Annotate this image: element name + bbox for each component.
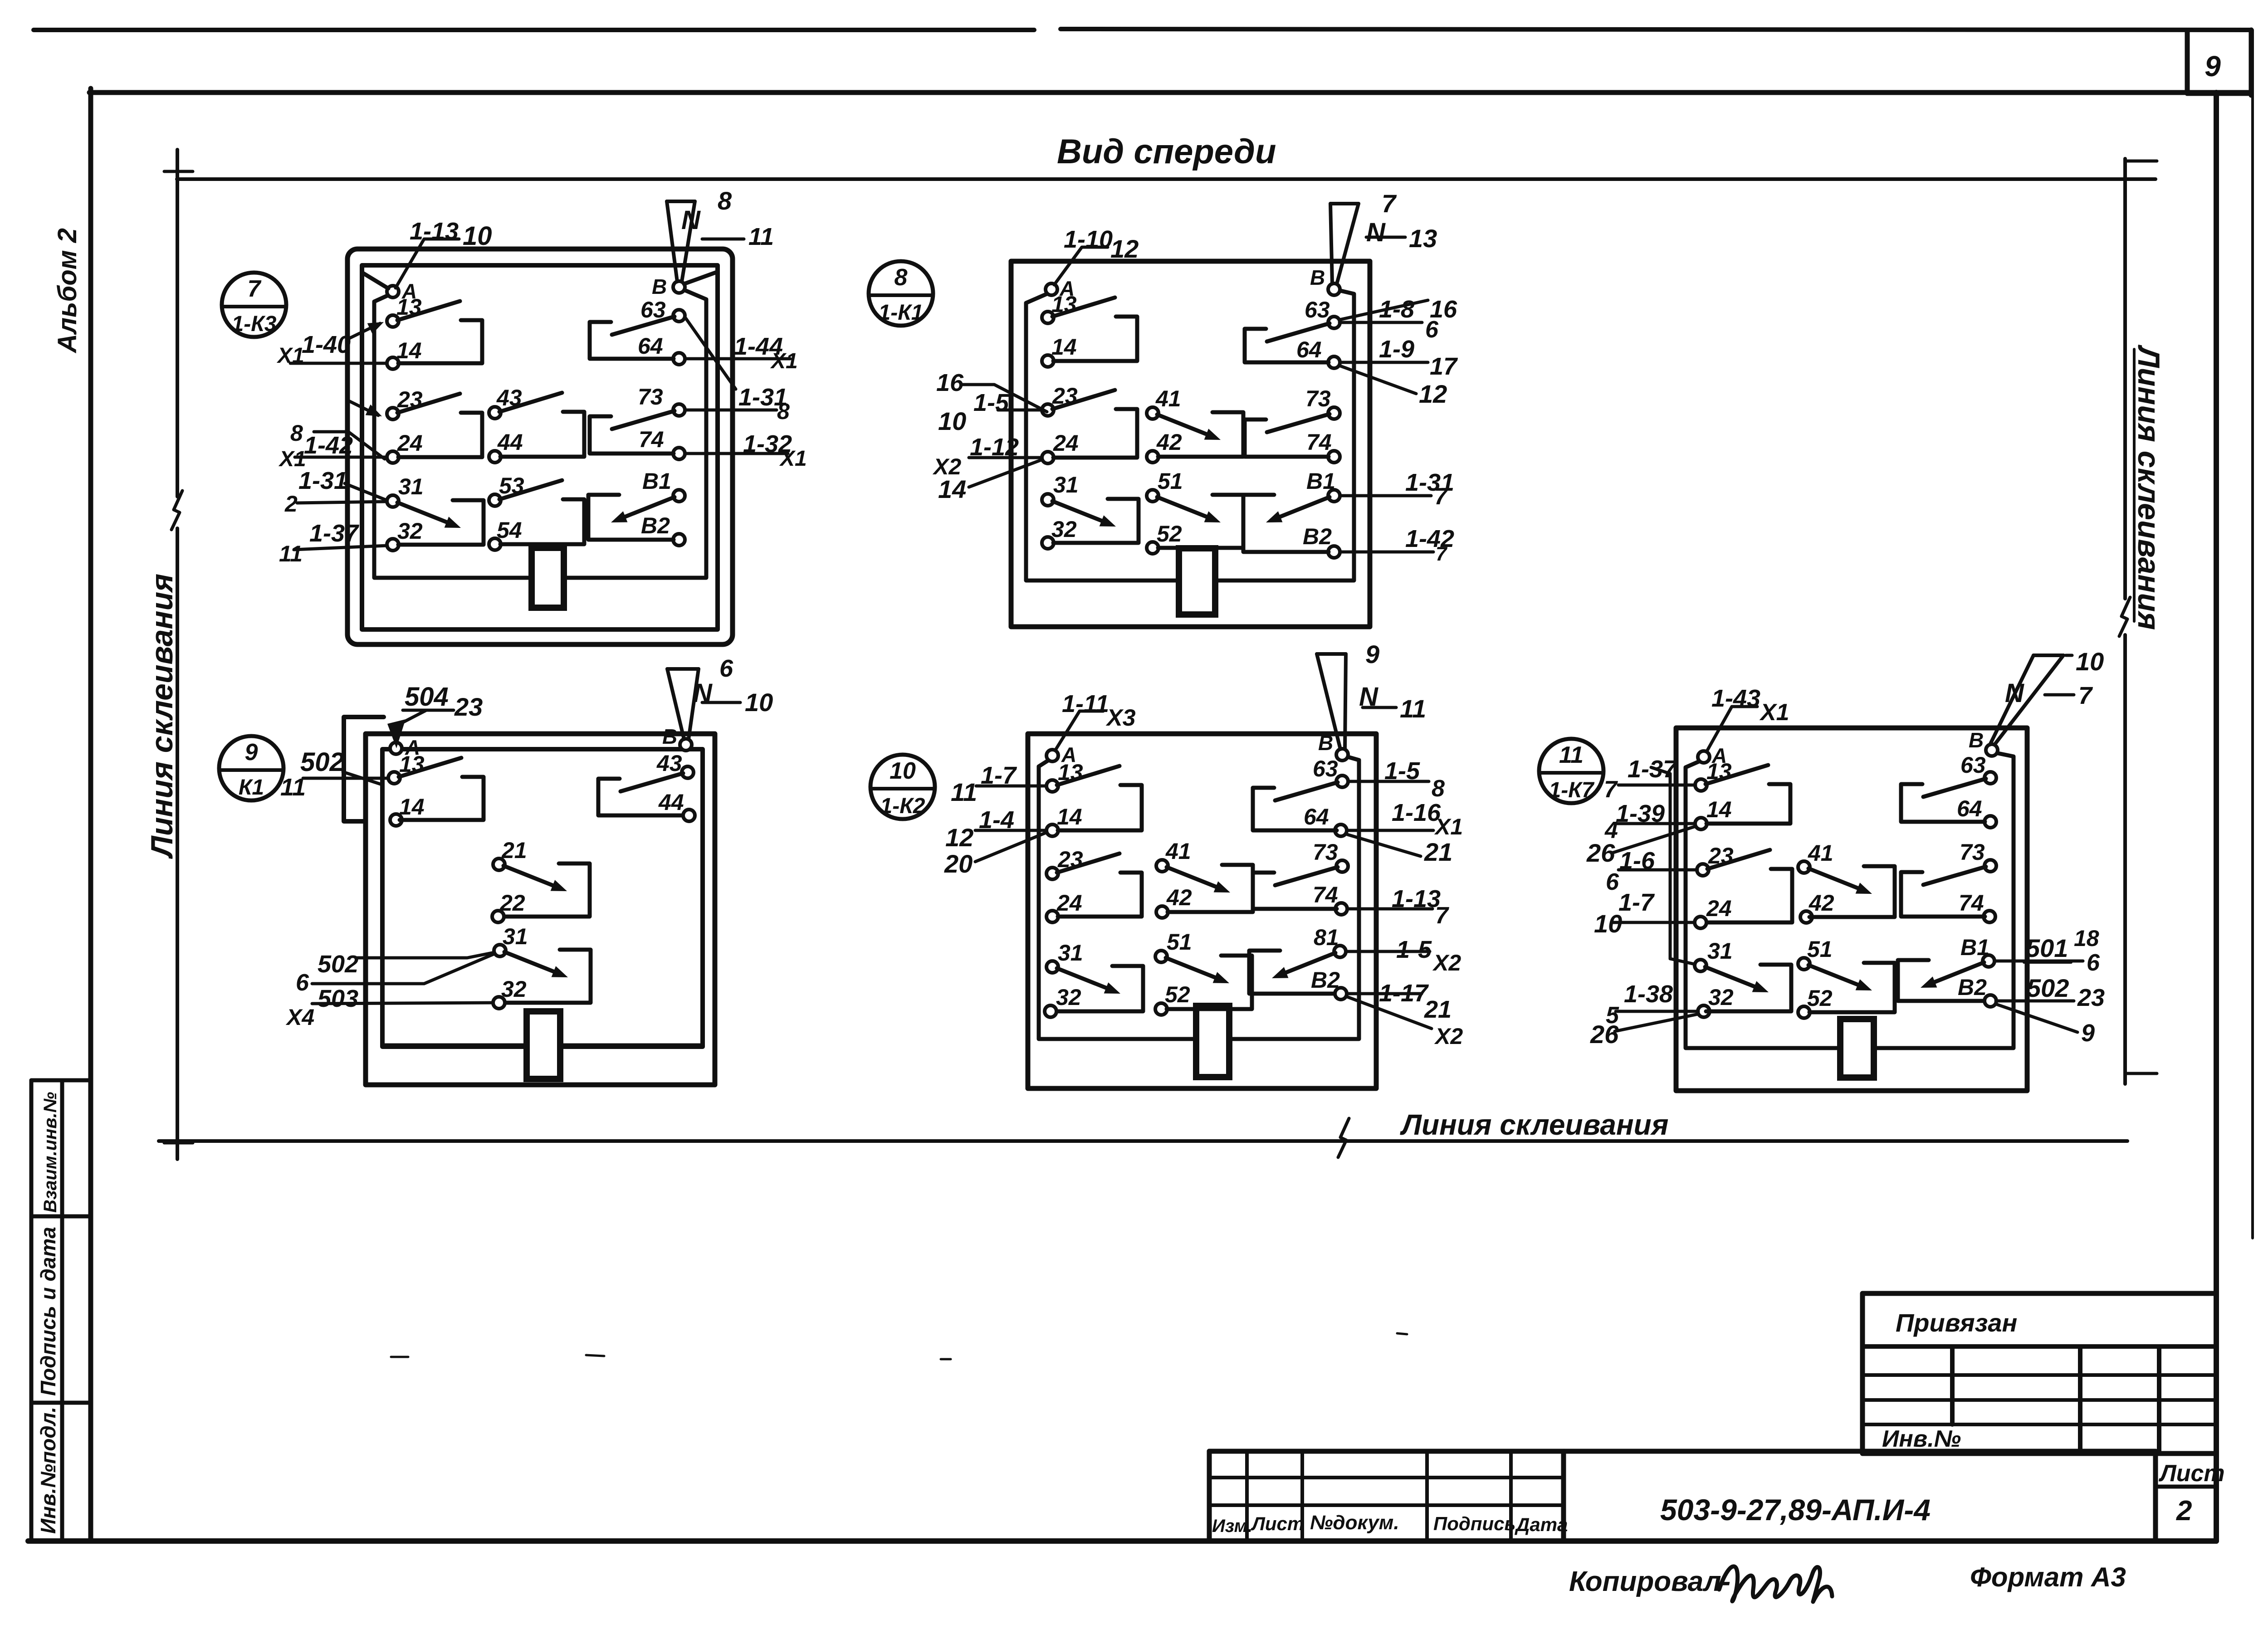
svg-text:B2: B2 <box>1311 967 1340 993</box>
pin 52 (1-K2) <box>1155 982 1190 1015</box>
svg-text:7: 7 <box>2078 682 2093 709</box>
bottom glue-line break mark <box>1338 1118 1349 1157</box>
svg-text:B: B <box>1318 731 1333 755</box>
svg-text:Формат А3: Формат А3 <box>1970 1562 2126 1592</box>
glue area right line <box>2125 159 2157 1084</box>
svg-text:1-38: 1-38 <box>1624 980 1673 1008</box>
leader 1-11/X3 (1-K2) <box>1055 690 1136 751</box>
svg-text:73: 73 <box>1305 386 1331 411</box>
pin 64 (1-K2) <box>1304 804 1347 836</box>
svg-text:Лист: Лист <box>1251 1513 1304 1534</box>
svg-text:64: 64 <box>1304 804 1329 829</box>
svg-text:74: 74 <box>1313 882 1338 907</box>
leader 10 (9/K1) <box>702 688 773 717</box>
contact 31-32 (1-K1) <box>1052 499 1139 543</box>
pin 42 (1-K1) <box>1147 429 1182 463</box>
svg-text:X1: X1 <box>276 344 304 368</box>
relay unit 10/1-K2 outline <box>1028 734 1376 1088</box>
pin 14 (1-K2) <box>1046 804 1082 836</box>
pin 32 (1-K1) <box>1042 517 1077 549</box>
leader 8/1-42/X1 to 24 (1-K3) <box>278 420 386 471</box>
svg-text:51: 51 <box>1158 468 1183 494</box>
svg-text:12: 12 <box>1110 234 1139 263</box>
svg-text:1-17: 1-17 <box>1379 980 1429 1007</box>
svg-text:Изм.: Изм. <box>1212 1516 1252 1536</box>
svg-text:B: B <box>652 275 667 298</box>
svg-text:1-7: 1-7 <box>981 762 1017 789</box>
svg-text:1-К7: 1-К7 <box>1549 778 1595 802</box>
pin 13 (9/K1) <box>388 751 425 784</box>
svg-text:12: 12 <box>945 823 973 852</box>
contact 23-24 (1-K2) <box>1057 854 1142 917</box>
svg-text:Копировал-: Копировал- <box>1569 1566 1730 1597</box>
svg-text:X4: X4 <box>285 1005 314 1030</box>
coil K of 1-K7 <box>1840 1019 1874 1078</box>
pin 64 (1-K7) <box>1957 796 1996 828</box>
N flag above B (1-K1) <box>1330 204 1359 284</box>
pin 51 (1-K2) <box>1155 929 1192 962</box>
svg-text:74: 74 <box>1959 890 1984 916</box>
sheet right edge line <box>2251 30 2254 1238</box>
pin 41 (1-K1) <box>1147 386 1181 419</box>
sheet number box <box>2187 30 2251 95</box>
svg-text:11: 11 <box>748 223 774 250</box>
contact 73-74 (1-K3) <box>590 411 675 454</box>
wire bus left (1-K7) <box>1686 761 1840 1048</box>
pin B (1-K1) <box>1310 266 1340 295</box>
pin A (1-K3) <box>387 279 417 303</box>
contact 63-64 (1-K1) <box>1245 323 1330 362</box>
svg-text:B: B <box>1969 728 1984 752</box>
contact 81-B2 (1-K2) <box>1249 951 1335 994</box>
revision table <box>1209 1451 1564 1541</box>
svg-text:43: 43 <box>656 751 682 776</box>
leader 1-31/8 from 73 (1-K3) <box>686 318 790 424</box>
contact 41-42 (1-K2) <box>1167 865 1253 912</box>
svg-text:64: 64 <box>1296 337 1322 362</box>
leader X1/1-40 to 14 (1-K3) <box>276 331 387 368</box>
svg-text:B2: B2 <box>1303 524 1332 549</box>
svg-text:21: 21 <box>501 838 527 863</box>
contact 23-24 (1-K1) <box>1052 390 1137 458</box>
pin 24 (1-K1) <box>1042 430 1079 463</box>
svg-text:Инв.№подл.: Инв.№подл. <box>36 1407 60 1534</box>
pin B2 (1-K1) <box>1303 524 1340 558</box>
svg-text:Инв.№: Инв.№ <box>1882 1426 1961 1452</box>
svg-text:503: 503 <box>318 985 358 1012</box>
pin 64 (1-K1) <box>1296 337 1340 368</box>
contact 13-14 (1-K2) <box>1057 766 1142 830</box>
position circle 11/1-K7 <box>1539 739 1603 803</box>
svg-text:X2: X2 <box>1434 1024 1463 1049</box>
svg-text:1-39: 1-39 <box>1616 800 1665 827</box>
pin 13 (1-K7) <box>1695 759 1732 791</box>
svg-text:B2: B2 <box>641 513 670 538</box>
pin A (1-K7) <box>1698 744 1727 767</box>
stamp box Privyazan <box>1862 1293 2216 1454</box>
pin 81 (1-K2) <box>1314 925 1346 957</box>
svg-text:1-31: 1-31 <box>298 467 347 494</box>
pin 32 (1-K7) <box>1698 985 1734 1017</box>
svg-text:8: 8 <box>718 186 732 215</box>
contact 23-24 (1-K7) <box>1707 850 1792 922</box>
leader 503/X4 to 32 (9/K1) <box>285 985 493 1030</box>
wire 1-31 into pin 13 (1-K3) <box>349 322 384 338</box>
svg-text:504: 504 <box>405 682 449 712</box>
svg-text:1-40: 1-40 <box>302 331 351 358</box>
svg-text:X1: X1 <box>770 349 798 373</box>
svg-text:6: 6 <box>1606 869 1619 895</box>
svg-text:44: 44 <box>658 790 684 815</box>
pin 24 (1-K7) <box>1695 896 1732 928</box>
left margin column <box>31 1080 91 1541</box>
pin 53 (1-K3) <box>489 473 524 506</box>
leader 1-5/10 to 23 (1-K1) <box>938 389 1041 435</box>
contact B1-B2 (1-K1) <box>1243 495 1330 552</box>
coil K of 1-K2 <box>1196 1006 1229 1077</box>
svg-text:1-8: 1-8 <box>1379 296 1414 323</box>
svg-text:24: 24 <box>1706 896 1732 921</box>
relay unit 8/1-K1 outline <box>1011 261 1370 627</box>
svg-text:N: N <box>2005 678 2024 708</box>
svg-text:32: 32 <box>1051 517 1077 542</box>
pin 63 (1-K7) <box>1960 752 1996 784</box>
leader 1-12/X2 to 24 (1-K1) <box>932 434 1041 479</box>
leader X2 from B2 (1-K2) <box>1347 997 1463 1049</box>
drawing frame left line <box>88 88 93 1541</box>
svg-text:Линия склеивания: Линия склеивания <box>2131 344 2166 630</box>
contact 23-24 (1-K3) <box>397 394 482 457</box>
label 10 at flag (1-K7) <box>2066 647 2104 676</box>
pin 51 (1-K7) <box>1798 937 1833 970</box>
leader 1-4/12 to 14 (1-K2) <box>945 806 1046 852</box>
position circle 7/1-K3 <box>222 273 286 337</box>
svg-text:11: 11 <box>1559 742 1584 768</box>
svg-text:Взаим.инв.№: Взаим.инв.№ <box>40 1092 60 1213</box>
pin B (1-K7) <box>1969 728 1998 756</box>
svg-text:1-К3: 1-К3 <box>232 312 277 336</box>
svg-text:18: 18 <box>2074 926 2099 951</box>
wire A to bus (1-K3) <box>363 273 388 288</box>
contact 21-22 (9/K1) <box>503 863 590 917</box>
pin 41 (1-K7) <box>1798 840 1833 873</box>
svg-text:Подпись: Подпись <box>1433 1513 1515 1534</box>
svg-text:41: 41 <box>1165 839 1191 864</box>
svg-text:1-10: 1-10 <box>1064 226 1113 253</box>
pin 23 (1-K3) <box>387 387 423 419</box>
svg-text:502: 502 <box>300 747 344 777</box>
svg-text:Вид спереди: Вид спереди <box>1057 132 1276 171</box>
svg-text:1-37: 1-37 <box>309 520 360 547</box>
wire bus right (1-K1) <box>1215 290 1354 580</box>
svg-text:1-4: 1-4 <box>979 806 1014 834</box>
svg-text:10: 10 <box>745 688 773 717</box>
pin 23 (1-K7) <box>1697 843 1734 876</box>
wire 1-37 drop to 31 (1-K7) <box>1651 767 1695 964</box>
position circle 9/K1 <box>219 736 283 800</box>
svg-text:Привязан: Привязан <box>1896 1308 2017 1337</box>
svg-text:31: 31 <box>503 924 528 949</box>
drawing frame top line <box>89 90 2251 95</box>
leader 1-31/7 from B1 (1-K1) <box>1340 469 1454 510</box>
svg-text:501: 501 <box>2026 934 2068 962</box>
svg-text:7: 7 <box>1434 483 1448 510</box>
svg-text:6: 6 <box>296 970 309 996</box>
wire 502 into pin 23 (1-K3) <box>347 400 382 416</box>
leader 1-9/17 from 64 (1-K1) <box>1342 336 1458 380</box>
N flag above B (1-K7) <box>1990 655 2063 745</box>
svg-text:31: 31 <box>1058 940 1083 966</box>
leader 11 (1-K2) <box>1363 694 1426 723</box>
pin 64 (1-K3) <box>638 333 685 365</box>
leader 26 to 32 (1-K7) <box>1590 1014 1698 1049</box>
svg-text:32: 32 <box>501 976 527 1002</box>
pin B1 (1-K1) <box>1306 468 1340 502</box>
leader 1-17/21 from B2 (1-K2) <box>1347 980 1452 1023</box>
svg-text:14: 14 <box>1706 797 1732 822</box>
svg-text:52: 52 <box>1157 521 1182 546</box>
contact 13-14 (1-K1) <box>1052 298 1137 361</box>
svg-text:№докум.: №докум. <box>1310 1512 1399 1534</box>
leader 502/11 to 13 (9/K1) <box>280 747 388 801</box>
svg-text:51: 51 <box>1167 929 1192 955</box>
svg-text:42: 42 <box>1166 885 1192 910</box>
contact 63-64 (1-K2) <box>1253 782 1338 830</box>
leader 1-10/12 (1-K1) <box>1054 226 1139 285</box>
glue area top line <box>177 177 2156 181</box>
svg-text:1-43: 1-43 <box>1711 685 1760 712</box>
leader 9 from B2 (1-K7) <box>1996 1004 2095 1047</box>
contact 31-32 (1-K2) <box>1057 966 1143 1011</box>
svg-text:6: 6 <box>2087 950 2100 976</box>
leader 1-7/11 to 13 (1-K2) <box>951 762 1046 806</box>
svg-text:21: 21 <box>1424 838 1452 866</box>
leader 6 to 31 (9/K1) <box>296 954 494 996</box>
pin 74 (1-K1) <box>1306 429 1340 463</box>
leader 1-38/5 to 32 (1-K7) <box>1606 980 1698 1029</box>
leader 1-5/X2 from 81 (1-K2) <box>1346 936 1461 976</box>
relay unit 9/K1 side tab <box>344 717 384 821</box>
pin 32 (1-K3) <box>387 518 423 551</box>
svg-text:24: 24 <box>1056 890 1082 916</box>
svg-text:Линия склеивания: Линия склеивания <box>1400 1108 1668 1141</box>
contact 13-14 (1-K3) <box>397 301 482 363</box>
left glue-line break mark <box>171 491 182 530</box>
leader 502/23 from B2 (1-K7) <box>1996 974 2105 1011</box>
svg-text:54: 54 <box>497 517 522 543</box>
svg-text:22: 22 <box>499 890 525 916</box>
N flag above B (9/K1) <box>667 669 699 739</box>
svg-text:1-К2: 1-К2 <box>880 794 925 818</box>
leader 1-37/7 to 13 (1-K7) <box>1604 756 1696 803</box>
svg-text:1-К1: 1-К1 <box>879 301 924 325</box>
contact 63-64 (1-K7) <box>1901 779 1986 822</box>
svg-text:64: 64 <box>638 333 663 359</box>
leader 16 to 23 (1-K1) <box>936 369 1047 412</box>
svg-text:20: 20 <box>944 849 973 878</box>
stray ink specks <box>391 1333 1407 1359</box>
svg-text:31: 31 <box>1707 938 1733 964</box>
wire B to bus (1-K3) <box>684 272 717 284</box>
svg-text:1-11: 1-11 <box>1062 690 1109 717</box>
pin 51 (1-K1) <box>1147 468 1183 502</box>
svg-text:1-16: 1-16 <box>1392 799 1441 826</box>
svg-text:8: 8 <box>777 399 790 424</box>
svg-text:23: 23 <box>2077 984 2105 1011</box>
svg-text:X2: X2 <box>1432 950 1461 976</box>
contact 41-42 (1-K7) <box>1809 866 1895 917</box>
svg-text:7: 7 <box>1382 189 1397 218</box>
svg-text:74: 74 <box>1306 429 1332 455</box>
svg-text:10: 10 <box>1594 909 1622 938</box>
svg-text:Линия склеивания: Линия склеивания <box>145 574 179 859</box>
contact 31-32 (1-K7) <box>1705 965 1791 1011</box>
svg-text:N: N <box>1366 218 1386 247</box>
svg-text:1-12: 1-12 <box>970 434 1019 461</box>
leader 502/6 to 31 (9/K1) <box>318 951 494 978</box>
svg-text:74: 74 <box>639 427 664 452</box>
pin 74 (1-K3) <box>639 427 685 459</box>
contact 63-64 (1-K3) <box>590 317 675 359</box>
svg-text:1-5: 1-5 <box>1384 757 1420 785</box>
leader 1-42/7 from B2 (1-K1) <box>1341 525 1454 565</box>
svg-text:42: 42 <box>1809 890 1834 916</box>
leader 1-31/2 to 31 (1-K3) <box>284 467 386 517</box>
pin 63 (1-K3) <box>640 297 685 322</box>
pin B (1-K2) <box>1318 731 1348 761</box>
svg-text:502: 502 <box>2027 974 2069 1002</box>
leader 14 to 24 (1-K1) <box>938 460 1041 503</box>
svg-text:41: 41 <box>1808 840 1833 866</box>
pin 73 (1-K3) <box>638 384 685 416</box>
svg-text:10: 10 <box>463 221 492 251</box>
position circle 10/1-K2 <box>870 755 935 819</box>
svg-text:63: 63 <box>1960 752 1986 778</box>
wire bus right (1-K7) <box>1874 753 2014 1048</box>
svg-text:9: 9 <box>245 739 258 766</box>
svg-text:52: 52 <box>1807 985 1833 1011</box>
contact B1-B2 (1-K3) <box>588 495 675 540</box>
pin 52 (1-K1) <box>1147 521 1182 554</box>
pin B2 (1-K3) <box>641 513 685 546</box>
wire bus left (1-K3) <box>374 295 532 578</box>
svg-text:11: 11 <box>279 541 303 566</box>
svg-text:2: 2 <box>2176 1495 2192 1527</box>
svg-text:B: B <box>662 725 677 748</box>
contact 13-14 (9/K1) <box>399 758 484 820</box>
contact B1-B2 (1-K7) <box>1898 960 1984 1001</box>
leader 20 to 14 (1-K2) <box>944 833 1046 878</box>
svg-text:63: 63 <box>1313 756 1338 781</box>
svg-text:26: 26 <box>1586 839 1615 867</box>
pin 54 (1-K3) <box>489 517 522 550</box>
svg-text:11: 11 <box>1400 694 1426 723</box>
drawing frame bottom line <box>28 1538 2216 1544</box>
svg-text:12: 12 <box>1419 380 1447 408</box>
pin B2 (1-K2) <box>1311 967 1347 1000</box>
svg-text:11: 11 <box>951 778 977 806</box>
relay unit 9/K1 outline <box>366 734 715 1085</box>
svg-text:1-42: 1-42 <box>304 432 353 459</box>
svg-text:24: 24 <box>397 430 423 456</box>
contact 31-32 (1-K3) <box>397 500 484 545</box>
pin 14 (1-K7) <box>1695 797 1732 829</box>
svg-text:24: 24 <box>1053 430 1079 456</box>
leader 7 (1-K7) <box>2045 682 2093 709</box>
pin 74 (1-K7) <box>1959 890 1995 922</box>
pin 44 (1-K3) <box>489 429 523 463</box>
leader 1-44/X1 from 64 (1-K3) <box>685 333 798 373</box>
svg-text:32: 32 <box>397 518 423 544</box>
pin B1 (1-K7) <box>1960 935 1994 967</box>
svg-text:B1: B1 <box>1960 935 1989 960</box>
contact 51-52 (1-K2) <box>1166 956 1252 1009</box>
svg-text:7: 7 <box>1435 902 1449 929</box>
relay unit 11/1-K7 outline <box>1676 728 2027 1091</box>
pin 31 (9/K1) <box>494 924 528 956</box>
svg-text:N: N <box>681 205 701 235</box>
leader 26 to 14 (1-K7) <box>1586 826 1696 867</box>
pin A (1-K2) <box>1046 743 1076 766</box>
leader 13 (1-K1) <box>1366 224 1437 253</box>
pin 13 (1-K3) <box>387 294 422 327</box>
svg-text:B1: B1 <box>1306 468 1335 494</box>
leader 504/23 with arrow (9/K1) <box>387 682 483 748</box>
pin 63 (1-K1) <box>1305 297 1340 328</box>
svg-text:32: 32 <box>1708 985 1734 1010</box>
svg-text:14: 14 <box>1051 334 1077 360</box>
pin B2 (1-K7) <box>1958 975 1996 1007</box>
pin 13 (1-K1) <box>1042 292 1077 323</box>
svg-text:1-9: 1-9 <box>1379 336 1414 363</box>
pin 23 (1-K2) <box>1046 847 1083 879</box>
wire bus left (1-K1) <box>1026 294 1179 580</box>
svg-text:73: 73 <box>1960 839 1985 865</box>
svg-text:1-13: 1-13 <box>410 218 459 245</box>
title bar <box>1209 1451 2156 1541</box>
svg-text:31: 31 <box>1053 472 1079 498</box>
svg-text:B: B <box>1310 266 1325 289</box>
pin 63 (1-K2) <box>1313 756 1348 787</box>
svg-text:63: 63 <box>1305 297 1330 322</box>
svg-text:14: 14 <box>396 338 422 363</box>
svg-text:7: 7 <box>1604 776 1618 803</box>
leader 1-32/X1 from 74 (1-K3) <box>685 430 807 471</box>
svg-text:8: 8 <box>1432 776 1445 802</box>
pin 23 (1-K1) <box>1042 383 1078 416</box>
pin B (9/K1) <box>662 725 692 751</box>
contact 41-42 (1-K1) <box>1157 412 1243 457</box>
pin 73 (1-K7) <box>1960 839 1996 872</box>
contact 73-74 (1-K7) <box>1901 867 1986 917</box>
leader 16 from 63 (1-K1) <box>1339 296 1457 323</box>
pin 31 (1-K1) <box>1042 472 1079 506</box>
leader 1-6/6 to 23 (1-K7) <box>1606 847 1697 895</box>
svg-text:Дата: Дата <box>1515 1514 1568 1535</box>
contact 13-14 (1-K7) <box>1706 765 1790 824</box>
right glue-line break mark <box>2119 597 2130 636</box>
pin 31 (1-K3) <box>387 474 424 507</box>
bottom glue line <box>159 1139 2127 1143</box>
contact 51-52 (1-K1) <box>1157 495 1243 548</box>
leader 1-43/X1 (1-K7) <box>1706 685 1789 752</box>
svg-text:X1: X1 <box>779 447 807 471</box>
svg-text:14: 14 <box>938 475 966 503</box>
svg-text:503-9-27,89-АП.И-4: 503-9-27,89-АП.И-4 <box>1660 1493 1931 1527</box>
svg-text:23: 23 <box>454 693 483 721</box>
svg-text:502: 502 <box>318 951 358 978</box>
pin 43 (1-K3) <box>489 385 522 419</box>
